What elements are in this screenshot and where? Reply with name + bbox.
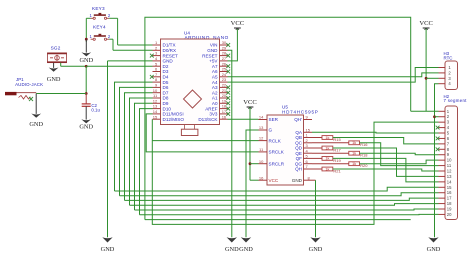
svg-text:QH': QH' [294,117,302,122]
svg-text:14: 14 [259,115,264,120]
svg-text:SG2: SG2 [51,46,61,51]
svg-text:14: 14 [447,179,452,184]
H3 pin 4 [439,83,446,85]
wire U4 D6 to bottom bundle [120,87,153,195]
no-connect H2 pin6 [436,137,440,141]
no-connect U4 right A0 [226,101,230,105]
svg-text:VCC: VCC [269,178,279,183]
svg-text:19: 19 [222,98,227,103]
wire QH via R21 to H2 pin12 [312,168,322,170]
U4 left pin 3 RESET [153,55,161,57]
wire digit line to H2 pin17 [125,198,439,200]
svg-text:GND: GND [101,246,115,253]
resistor R18 1k [349,151,368,157]
svg-text:10: 10 [447,158,452,163]
capacitor C2 0.1u [82,94,101,113]
svg-text:GND: GND [225,246,239,253]
H2 pin 6 [439,137,446,139]
svg-text:20: 20 [447,212,452,217]
wire to SRCLR [250,163,259,165]
svg-text:1k: 1k [325,157,329,161]
U4 left pin 8 D5 [153,81,161,83]
svg-text:QG: QG [295,161,303,166]
wire U4 D11/MOSI to U5 SRCLK [146,114,258,152]
ground symbol bottom mid-left [227,237,237,242]
U4 right pin 17 3V3 [220,113,228,115]
U4 right pin 23 A4 [220,81,228,83]
svg-text:D8: D8 [163,96,169,101]
wire KEY4 down to D0/RX row [112,39,114,50]
U5 right pin 15 QA [304,131,313,133]
svg-text:D1/TX: D1/TX [163,43,176,48]
no-connect U4 RESET left [150,54,154,58]
connector JP1 AUDIO-JACK [5,77,43,99]
ground symbol (U5 G) [241,237,251,242]
ground symbol below C2 [85,106,87,119]
svg-text:8: 8 [308,175,311,180]
H2 pin 14 [439,181,446,183]
wire VCC stem right [425,29,427,112]
no-connect mark on jack contact [29,97,33,101]
wire U5 G to ground [246,130,259,237]
U4 right pin 25 A6 [220,71,228,73]
svg-text:RCLK: RCLK [269,138,282,143]
U5 right pin 7 QH [304,168,313,170]
H3 pin 2 [439,72,446,74]
svg-text:22: 22 [222,83,227,88]
no-connect U4 right 3V3 [226,112,230,116]
no-connect U4 right A6 [226,70,230,74]
U5 left pin 10 SRCLR [259,163,268,165]
svg-text:9: 9 [306,115,309,120]
no-connect U4 D4 [150,75,154,79]
wire VCC bottom rail [145,219,411,221]
svg-text:QH: QH [295,167,302,172]
no-connect U4 right VIN [226,43,230,47]
svg-text:1: 1 [89,13,92,18]
shift register U5 HD74HC595P [267,105,319,185]
svg-text:18: 18 [222,104,227,109]
wire QG via R20 to H2 pin10 [312,163,349,165]
H2 pin 16 [439,192,446,194]
H2 pin 20 [439,213,446,215]
svg-text:VCC: VCC [231,20,245,27]
svg-text:A2: A2 [212,90,218,95]
svg-text:GND: GND [427,246,441,253]
svg-text:A3: A3 [212,85,218,90]
wire to U4 D1/TX [118,44,153,46]
U4 right pin 26 A7 [220,65,228,67]
svg-text:AREF: AREF [205,106,217,111]
junction audio jack net [85,92,88,95]
wire U4 D10 to bottom bundle [140,109,153,215]
svg-text:16: 16 [259,175,264,180]
svg-text:D5: D5 [163,80,169,85]
wire KEY3 down to D1/TX row [117,18,119,45]
wire U4 GND pin4 left [108,60,153,62]
svg-text:5: 5 [155,61,158,66]
svg-text:D13/SCK: D13/SCK [198,117,218,122]
svg-text:30: 30 [222,40,227,45]
U5 right pin 1 QB [304,137,313,139]
wire VCC top loop [145,17,411,219]
U4 left pin 2 D0/RX [153,49,161,51]
U4 left pin 14 D11/MOSI [153,113,161,115]
svg-text:+5V: +5V [209,59,218,64]
junction VCC/H3 pin3 [425,77,428,80]
ground symbol below U5 [310,237,320,242]
U4 left pin 7 D4 [153,76,161,78]
no-connect U4 right A1 [226,96,230,100]
svg-text:4: 4 [155,56,158,61]
wire KEY3 pin2 to corner [109,17,117,19]
resistor R19 1k [322,157,342,163]
svg-text:5: 5 [306,154,309,159]
svg-text:GND: GND [207,48,218,53]
svg-text:24: 24 [222,72,227,77]
ground symbol bottom left [102,237,112,242]
U4 left pin 12 D9 [153,102,161,104]
H2 pin 9 [439,154,446,156]
svg-text:A6: A6 [212,69,218,74]
wire U4 A5 to H3 pin2 [228,73,439,77]
svg-text:15: 15 [447,185,452,190]
svg-text:1: 1 [89,34,92,39]
junction VCC/SRCLR [249,162,252,165]
svg-text:1: 1 [155,40,158,45]
U4 left pin 9 D6 [153,86,161,88]
svg-text:1k: 1k [352,162,356,166]
svg-text:29: 29 [222,45,227,50]
H3 pin 1 [439,67,446,69]
svg-text:D12/MISO: D12/MISO [163,117,185,122]
resistor R20 1k [349,162,368,168]
svg-text:HD74HC595P: HD74HC595P [282,109,319,114]
svg-text:6: 6 [155,67,158,72]
svg-text:25: 25 [222,67,227,72]
svg-text:A5: A5 [212,75,218,80]
H2 pin 7 [439,143,446,145]
H3 pin 3 [439,77,446,79]
U4 left pin 10 D7 [153,92,161,94]
wire digit line to H2 pin18 [130,204,439,206]
U5 right pin 3 QD [304,147,313,149]
svg-text:1k: 1k [352,141,356,145]
svg-text:10: 10 [153,88,158,93]
wire to H2 pin2 [435,116,439,118]
svg-text:1: 1 [306,133,309,138]
svg-text:VCC: VCC [243,99,257,106]
svg-text:GND: GND [163,59,174,64]
wire QE via R18 to H2 pin9 [312,152,349,154]
junction SG2/D2 net [85,65,88,68]
svg-text:D4: D4 [163,75,169,80]
svg-text:12: 12 [153,98,158,103]
svg-text:11: 11 [447,163,452,168]
H2 pin 19 [439,208,446,210]
U5 right pin 6 QG [304,163,313,165]
svg-text:26: 26 [222,61,227,66]
wire SG2 to junction [61,65,86,67]
U4 left pin 6 D3 [153,71,161,73]
H2 pin 2 [439,116,446,118]
ground symbol below KEY4 [85,39,87,52]
svg-text:KEY3: KEY3 [92,6,105,11]
wire digit line to H2 pin20 [140,213,439,215]
svg-text:7: 7 [155,72,158,77]
U4 right pin 28 RESET [220,55,228,57]
wire U4 A4 to H3 pin1 [228,68,439,83]
wire to H2 pin1 [411,110,439,112]
svg-text:GND: GND [292,178,303,183]
pushbutton KEY4 [89,25,110,41]
wire U4 D5 to bottom bundle [115,82,153,191]
svg-text:D2: D2 [163,64,169,69]
svg-text:D7: D7 [163,90,169,95]
U5 left pin 11 SRCLK [259,151,268,153]
svg-text:2: 2 [108,13,111,18]
svg-text:GND: GND [29,121,43,128]
svg-text:12: 12 [447,169,452,174]
svg-text:1k: 1k [325,136,329,140]
wire SG2 pin2 down [60,63,62,67]
svg-text:21: 21 [222,88,227,93]
resistor R15 1k [322,136,342,142]
svg-text:SRCLR: SRCLR [269,161,285,166]
U4 right pin 20 A1 [220,97,228,99]
ground symbol bottom right [428,237,438,242]
U4 left pin 1 D1/TX [153,44,161,46]
U5 right pin 5 QF [304,157,313,159]
svg-text:VCC: VCC [419,20,433,27]
wire junction to U4 D2 [86,65,152,67]
wire U4 GND pin29 down [228,50,232,237]
svg-text:A0: A0 [212,101,218,106]
U4 right pin 30 VIN [220,44,228,46]
svg-text:8: 8 [155,77,158,82]
svg-text:AUDIO-JACK: AUDIO-JACK [15,82,43,87]
no-connect U4 right AREF [226,107,230,111]
wire junction down to audio net [85,66,87,93]
H2 pin 4 [439,127,446,129]
svg-text:RTC: RTC [444,55,453,60]
svg-text:D10: D10 [163,106,172,111]
U4 right pin 21 A2 [220,92,228,94]
U5 left pin 16 VCC [259,179,268,181]
svg-text:9: 9 [155,83,158,88]
svg-text:D3: D3 [163,69,169,74]
wire branch to U5 RCLK [152,140,258,142]
svg-text:D11/MOSI: D11/MOSI [163,112,184,117]
U5 left pin 12 RCLK [259,140,268,142]
ground symbol below SG2 [53,63,55,68]
resistor R21 1k [322,167,342,173]
U4 right pin 22 A3 [220,86,228,88]
connector H2 7 segment [444,94,468,220]
svg-text:28: 28 [222,51,227,56]
resistor R16 1k [349,141,368,147]
no-connect U4 right RESET [226,54,230,58]
svg-text:3V3: 3V3 [209,112,218,117]
svg-text:D6: D6 [163,85,169,90]
svg-text:A4: A4 [212,80,218,85]
no-connect H2 pin8 [436,147,440,151]
svg-text:13: 13 [447,174,452,179]
H2 pin 10 [439,159,446,161]
H2 pin 17 [439,197,446,199]
U4 left pin 15 D12/MISO [153,118,161,120]
resistor R17 1k [322,146,342,152]
U5 right pin 2 QC [304,142,313,144]
H2 pin 8 [439,148,446,150]
svg-text:SER: SER [269,117,279,122]
svg-text:GND: GND [309,246,323,253]
no-connect U4 right A3 [226,86,230,90]
svg-text:A7: A7 [212,64,218,69]
no-connect U4 right A7 [226,64,230,68]
svg-text:13: 13 [153,104,158,109]
svg-text:SRCLK: SRCLK [269,150,285,155]
U4 right pin 19 A0 [220,102,228,104]
svg-text:0.1u: 0.1u [91,108,100,113]
junction KEY4 pin1 [85,38,88,41]
svg-text:RESET: RESET [202,53,218,58]
wire U4 D13/SCK to U5 SER [228,118,259,120]
H2 pin 11 [439,165,446,167]
svg-text:2: 2 [108,34,111,39]
wire to U4 D0/RX [113,49,153,51]
wire U4 D7 to bottom bundle [125,93,153,201]
wire H3 pin4 to ground rail [435,84,439,238]
U4 right pin 24 A5 [220,76,228,78]
svg-text:D0/RX: D0/RX [163,48,177,53]
wire to VCC pin [250,179,259,181]
svg-text:12: 12 [259,136,264,141]
svg-text:27: 27 [222,56,227,61]
U4 right pin 27 +5V [220,60,228,62]
U4 left pin 4 GND [153,60,161,62]
wire U4 D8 to bottom bundle [130,98,153,205]
svg-text:1k: 1k [352,152,356,156]
svg-text:GND: GND [47,76,61,83]
U4 right pin 18 AREF [220,108,228,110]
H2 pin 15 [439,186,446,188]
wire QD via R17 to H2 pin13 [312,147,322,149]
U5 right pin 9 QH' [304,119,313,121]
svg-text:11: 11 [153,93,158,98]
svg-text:17: 17 [447,196,452,201]
wire U4 D9 to bottom bundle [135,103,153,210]
no-connect U4 right A2 [226,91,230,95]
pushbutton KEY3 [89,6,110,20]
svg-text:A1: A1 [212,96,218,101]
wire KEY4 pin2 right [109,38,113,40]
U5 left pin 13 G [259,129,268,131]
buzzer SG2 [47,46,67,63]
wire U4 +5V to VCC symbol [228,29,238,61]
junction H2 pin2/GND [433,115,436,118]
wire QB via R15 to H2 pin7 [312,137,322,139]
wire U5 GND down [315,180,317,237]
wire U4 D12/MISO to U5 RCLK and H2 [152,119,438,224]
svg-text:18: 18 [447,201,452,206]
U5 right pin 4 QE [304,152,313,154]
H2 pin 3 [439,121,446,123]
svg-text:16: 16 [447,190,452,195]
svg-text:GND: GND [79,124,93,131]
svg-text:QF: QF [296,156,303,161]
U4 left pin 11 D8 [153,97,161,99]
H2 pin 18 [439,203,446,205]
wire digit line to H2 pin15 [115,187,439,191]
H2 pin 5 [439,132,446,134]
U4 left pin 13 D10 [153,108,161,110]
svg-text:KEY4: KEY4 [93,25,106,30]
U4 right pin 16 D13/SCK [220,118,228,120]
wire to H3 pin3 [426,77,438,79]
svg-text:14: 14 [153,109,158,114]
svg-text:D9: D9 [163,101,169,106]
U4 left pin 5 D2 [153,65,161,67]
svg-text:RESET: RESET [163,53,179,58]
wire QC via R16 to H2 pin11 [312,142,349,144]
H2 pin 1 [439,110,446,112]
svg-text:2: 2 [155,45,158,50]
svg-text:16: 16 [222,114,227,119]
svg-text:20: 20 [222,93,227,98]
svg-text:GND: GND [79,57,93,64]
ground symbol below audio jack [35,94,37,114]
wire QF via R19 to H2 pin14 [312,157,322,159]
svg-text:VIN: VIN [210,43,218,48]
svg-text:23: 23 [222,77,227,82]
connector H3 RTC [444,51,458,90]
U5 left pin 14 SER [259,119,268,121]
H2 pin 13 [439,175,446,177]
svg-text:19: 19 [447,207,452,212]
svg-text:13: 13 [259,125,264,130]
wire KEY3 pin1 down to KEY4 pin1 [85,18,87,42]
wire digit line to H2 pin19 [135,208,439,211]
svg-text:QB: QB [295,135,302,140]
wire VCC stem to U5 pin16 [249,107,251,180]
wire audio jack to junction [36,93,86,95]
svg-text:11: 11 [259,147,264,152]
svg-text:17: 17 [222,109,227,114]
svg-text:15: 15 [153,114,158,119]
svg-text:3: 3 [155,51,158,56]
U4 right pin 29 GND [220,49,228,51]
H2 pin 12 [439,170,446,172]
svg-text:1k: 1k [325,167,329,171]
wire QA to H2 pin5 [312,131,439,134]
wire digit line to H2 pin16 [120,193,439,196]
wire KEY3 pin1 left [86,17,90,19]
wire GND down to bottom [107,61,109,237]
svg-text:6: 6 [306,159,309,164]
svg-text:7 segment: 7 segment [444,98,468,103]
svg-text:10: 10 [259,159,264,164]
svg-text:1k: 1k [325,146,329,150]
no-connect H2 pin4 [436,126,440,130]
svg-text:G: G [269,128,273,133]
svg-text:GND: GND [239,246,253,253]
op module U4 ARDUINO_NANO [161,31,229,136]
svg-text:7: 7 [306,164,309,169]
